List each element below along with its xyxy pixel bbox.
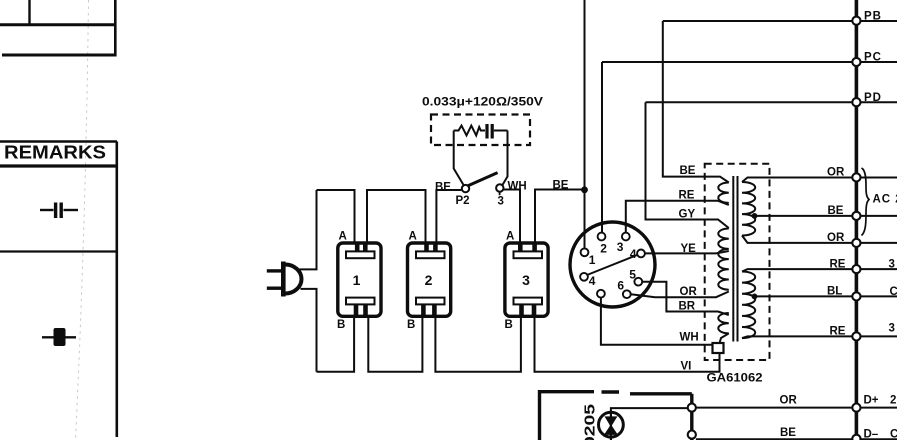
wire secondary RE bottom (742, 336, 897, 338)
svg-text:3: 3 (498, 196, 504, 208)
switch contact 3 (496, 184, 503, 191)
svg-text:GA61062: GA61062 (707, 373, 763, 385)
svg-text:PB: PB (864, 11, 882, 23)
primary bottom lead to terminal lug (720, 333, 729, 343)
svg-text:BE: BE (435, 182, 451, 194)
wire PD (646, 101, 897, 103)
svg-text:RE: RE (830, 326, 846, 338)
svg-text:BE: BE (828, 205, 844, 217)
fold artifact (76, 0, 89, 440)
svg-text:PD: PD (864, 92, 882, 104)
terminal BE (852, 212, 860, 220)
primary winding group 3 (BR-WH) (718, 313, 729, 333)
svg-text:C: C (890, 286, 897, 298)
snubber dashed box (431, 115, 530, 146)
svg-text:D–: D– (864, 429, 879, 440)
svg-text:2: 2 (890, 395, 896, 407)
voltage selector connector (570, 222, 655, 307)
primary winding group 1 (BE-RE) (718, 183, 729, 203)
capacitor 0.033u (487, 124, 508, 139)
wire D- row (696, 438, 897, 440)
wire vertical from top edge to junction and pin 1 (584, 0, 586, 248)
svg-text:5: 5 (629, 267, 636, 281)
svg-text:BE: BE (680, 165, 696, 177)
svg-text:0.033μ+120Ω/350V: 0.033μ+120Ω/350V (422, 97, 543, 109)
wire top run y=190 segments (317, 190, 585, 244)
AC plug P1 (267, 262, 302, 297)
junction circle on lamp box (D+ row) (688, 404, 696, 412)
switch P2 contact (462, 185, 469, 192)
wire secondary RE top (742, 269, 897, 271)
svg-text:BR: BR (679, 301, 696, 313)
svg-text:BE: BE (553, 180, 569, 192)
svg-text:GY: GY (679, 209, 696, 221)
terminal PC (852, 58, 860, 66)
secondary winding group A (742, 182, 755, 236)
svg-text:C: C (890, 429, 897, 440)
wire plug lower to bottom run (301, 289, 317, 372)
svg-text:AC 2: AC 2 (873, 194, 897, 206)
svg-text:RE: RE (679, 190, 695, 202)
pin 6 (623, 290, 631, 298)
selector arm (587, 254, 639, 275)
fuse link 1 (338, 243, 381, 316)
pin 1 (581, 248, 589, 256)
svg-text:OR: OR (827, 167, 845, 179)
fuse link 2 (408, 243, 451, 316)
svg-text:2: 2 (600, 241, 607, 255)
svg-text:B: B (337, 319, 345, 331)
terminal BL (852, 292, 860, 300)
bus line (855, 0, 859, 440)
svg-text:P2: P2 (456, 195, 470, 207)
pilot lamp box (538, 390, 692, 440)
svg-text:4: 4 (589, 274, 596, 288)
svg-text:D+: D+ (864, 395, 879, 407)
wire bottom pin + WH primary lead (601, 298, 713, 345)
junction dot (581, 186, 588, 193)
transformer core (732, 176, 734, 342)
svg-text:REMARKS: REMARKS (4, 143, 106, 163)
wire snubber right lead to switch contact 3 (502, 131, 507, 186)
svg-text:3: 3 (617, 240, 624, 254)
svg-text:1: 1 (353, 272, 361, 288)
terminal D- (852, 435, 860, 440)
pin 4 wiper top right (637, 250, 645, 258)
svg-text:B: B (407, 319, 415, 331)
svg-text:A: A (506, 231, 514, 243)
svg-text:RE: RE (830, 259, 846, 271)
svg-text:WH: WH (680, 332, 699, 344)
svg-text:BE: BE (780, 427, 796, 439)
terminal RE top (852, 265, 860, 273)
pilot lamp (599, 412, 624, 437)
junction circle on lamp box (bottom) (688, 431, 696, 439)
terminal D+ (852, 404, 860, 412)
wire secondary OR bottom (742, 236, 897, 243)
wire D+ row (696, 407, 897, 409)
electrolytic capacitor symbol (remarks row 2) (42, 328, 76, 346)
svg-text:2: 2 (425, 272, 433, 288)
brace AC group (862, 168, 870, 236)
wire PD drop + GY primary lead (646, 102, 729, 228)
wire PB drop + BE primary lead (663, 21, 729, 183)
table top-left (0, 0, 116, 57)
wire secondary OR top (742, 178, 897, 183)
transformer GA61062 dashed box (705, 164, 770, 360)
wire pin 6 + OR primary lead (631, 292, 729, 298)
terminal PB (852, 17, 860, 25)
pin 2 (598, 233, 606, 241)
wire VI from link 3 to transformer (535, 316, 720, 371)
wire PC (602, 61, 897, 63)
terminal PD (852, 98, 860, 106)
svg-text:A: A (409, 231, 417, 243)
svg-text:B: B (505, 319, 513, 331)
REMARKS box (0, 142, 117, 438)
wire PC drop to pin 2 (601, 62, 603, 233)
terminal OR top (852, 173, 860, 181)
primary winding group 2 (GY-YE-OR) (718, 229, 729, 290)
svg-text:3: 3 (889, 259, 895, 271)
svg-text:3: 3 (522, 272, 530, 288)
capacitor symbol (remarks row 1) (40, 203, 78, 219)
svg-text:PC: PC (864, 52, 882, 64)
svg-text:BL: BL (827, 286, 842, 298)
tap BL (secondary B mid) (752, 294, 758, 300)
pin 5 (634, 278, 642, 286)
resistor 120R (454, 126, 485, 136)
wire plug upper to top run (300, 190, 317, 269)
wire PB (663, 20, 897, 22)
svg-text:1: 1 (589, 253, 596, 267)
svg-text:OR: OR (780, 395, 798, 407)
svg-text:OR: OR (827, 232, 845, 244)
svg-text:6: 6 (617, 278, 624, 292)
wire snubber left lead to P2 (454, 131, 464, 186)
svg-text:VI: VI (681, 361, 692, 373)
svg-text:4: 4 (630, 247, 637, 261)
svg-text:YE: YE (681, 243, 697, 255)
svg-text:0205: 0205 (583, 404, 599, 440)
wire bottom run y=371.7 segments (317, 316, 720, 371)
fuse link 3 (505, 243, 548, 316)
wire pin 5 + BR primary lead (642, 282, 729, 315)
wire pin 4 + YE primary lead (645, 251, 729, 253)
pin bottom (WH) (597, 290, 605, 298)
svg-text:OR: OR (680, 286, 698, 298)
terminal lug (713, 343, 724, 353)
wire lamp to D+ node (611, 408, 688, 414)
switch P2 arm (467, 173, 497, 186)
wire pin 3 + RE primary lead (626, 201, 729, 233)
pin 4 bottom left (580, 273, 588, 281)
secondary winding group B (742, 272, 755, 339)
svg-text:3: 3 (889, 323, 895, 335)
terminal RE bottom (852, 332, 860, 340)
svg-text:WH: WH (508, 181, 527, 193)
pin 3 (622, 233, 630, 241)
terminal OR bottom (852, 239, 860, 247)
tap BE (secondary A mid) (752, 213, 758, 219)
svg-text:A: A (339, 231, 347, 243)
